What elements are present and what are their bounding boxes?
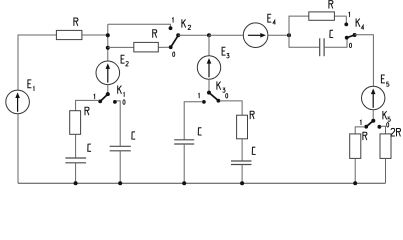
wire E5 bottom to K5 pivot — [372, 110, 374, 120]
label E1 — [28, 80, 32, 88]
label R of top-left resistor — [74, 18, 78, 26]
label E3 — [222, 47, 226, 55]
label C of middle capacitor — [198, 128, 201, 135]
arrow of E1 — [17, 98, 19, 112]
label K4 — [356, 18, 360, 26]
wire second C to bottom rail — [119, 151, 121, 184]
wire from top-left R to node — [82, 34, 108, 36]
wire node C down and right to capacitor C — [289, 35, 320, 47]
label C of second capacitor — [132, 132, 135, 139]
contact 1 dot of K5 — [364, 125, 368, 129]
resistor R (middle vertical branch) — [237, 115, 248, 139]
label 0 of K1 — [123, 100, 125, 105]
label 0 of K5 — [387, 123, 389, 128]
switch K1 blade — [100, 94, 108, 101]
label R of second resistor — [153, 30, 157, 38]
wire top-right R to contact 1 of K4 — [334, 16, 346, 23]
label 1 of K4 — [349, 12, 350, 17]
label K3 — [217, 81, 221, 89]
contact 0 dot of K5 — [378, 125, 382, 129]
node A vertical wire at x=107.8 — [107, 24, 109, 61]
junction dot second C at rail — [118, 181, 122, 185]
contact 0 dot of K1 — [113, 100, 117, 104]
source E3 — [197, 56, 220, 79]
source E5 — [362, 86, 385, 109]
contact 0 dot of K4 — [345, 36, 349, 40]
junction dot bottom-right R at rail — [353, 181, 357, 185]
wire left C to bottom rail — [75, 163, 77, 184]
contact 0 dot of K2 — [169, 45, 173, 49]
contact 1 dot of K1 — [98, 100, 102, 104]
wire K3 contact 0 to RC branch — [220, 101, 243, 115]
wire K5 contact 0 to 2R branch — [380, 126, 385, 134]
arrow of E3 — [208, 63, 210, 77]
switch K2 blade — [171, 35, 179, 47]
wire E1 bottom to bottom rail — [17, 114, 19, 184]
wire K5 contact 1 to R branch — [355, 127, 365, 134]
label E5 — [381, 75, 385, 83]
resistor 2R — [380, 134, 391, 159]
junction dot node A lower — [106, 46, 110, 50]
capacitor C (second branch) — [110, 145, 131, 147]
switch K3 blade — [209, 93, 218, 101]
label 1 of K1 — [94, 94, 95, 99]
label K2 — [182, 19, 186, 27]
wire E4 to junction node C — [268, 34, 289, 36]
label C of top-right capacitor — [330, 30, 333, 37]
label R of middle vertical resistor — [250, 111, 254, 119]
label R of bottom-right resistor — [363, 132, 367, 140]
label 2R — [391, 128, 395, 136]
pivot dot of K3 — [207, 91, 211, 95]
source E1 — [6, 90, 30, 114]
capacitor C (fourth branch) — [231, 160, 252, 162]
wire node B to E4 — [209, 34, 243, 36]
contact 1 dot of K2 — [169, 26, 173, 30]
source E4 — [243, 23, 268, 48]
resistor R (top left horizontal) — [56, 30, 82, 39]
label 1 of K2 — [172, 18, 173, 23]
capacitor C (middle branch) — [174, 139, 194, 141]
wire K4 pivot to E5 — [355, 35, 374, 87]
capacitor C (left branch) — [65, 157, 86, 159]
label 1 of K3 — [198, 93, 199, 98]
source E2 — [96, 61, 120, 85]
wire fourth C to bottom rail — [241, 165, 243, 184]
junction dot node C — [287, 33, 291, 37]
arrow of E5 — [372, 94, 374, 108]
wire K1 contact 1 to left R branch — [76, 100, 99, 110]
wire node A to second resistor R — [108, 46, 134, 48]
label E4 — [268, 14, 272, 22]
junction dot node A upper — [106, 33, 110, 37]
switch K4 blade — [347, 35, 355, 38]
resistor R (second horizontal, K2 branch) — [134, 42, 159, 52]
wire middle C to bottom rail — [183, 144, 185, 183]
label 1 of K5 — [360, 120, 361, 125]
resistor R (left vertical branch) — [70, 111, 81, 135]
wire middle R to capacitor C — [241, 139, 243, 161]
wire K1 contact 0 down to capacitor C — [116, 101, 120, 146]
resistor R (top right horizontal) — [309, 12, 335, 20]
wire node A to switch K2 contact 1 — [108, 24, 171, 26]
wire K3 contact 1 to middle C branch — [184, 102, 203, 140]
label C of left capacitor — [88, 144, 91, 151]
wire second R to contact 0 of K2 — [158, 46, 169, 48]
wire node B down to E3 — [208, 35, 210, 56]
contact 1 dot of K3 — [202, 100, 206, 104]
junction dot left C at rail — [74, 181, 78, 185]
label C of fourth capacitor — [252, 147, 255, 154]
wire E3 bottom to K3 pivot — [208, 79, 210, 91]
capacitor C (top right, horizontal) — [319, 38, 321, 56]
pivot dot of K2 — [176, 33, 180, 37]
label R of left vertical resistor — [85, 107, 89, 115]
contact 1 dot of K4 — [344, 23, 348, 27]
wire top-right C to contact 0 of K4 — [324, 40, 347, 48]
wire E2 bottom to K1 pivot — [107, 85, 109, 93]
pivot dot of K1 — [106, 92, 110, 96]
wire node C up and right to top R — [289, 16, 309, 35]
arrow of E2 — [107, 68, 109, 82]
pivot dot of K5 — [371, 119, 375, 123]
wire bottom-right R to rail — [354, 158, 356, 183]
switch K5 blade — [366, 121, 373, 127]
wire 2R to bottom rail — [385, 158, 387, 183]
label R of top-right resistor — [329, 1, 333, 9]
junction dot middle C at rail — [182, 181, 186, 185]
label 0 of K4 — [349, 43, 351, 48]
contact 0 dot of K3 — [217, 99, 221, 103]
junction dot fourth C at rail — [240, 181, 244, 185]
label E2 — [121, 55, 125, 63]
arrow of E4 — [248, 34, 262, 36]
pivot dot of K4 — [353, 33, 357, 37]
label 0 of K2 — [173, 52, 175, 57]
wire left R to capacitor C — [75, 134, 77, 158]
label 0 of K3 — [226, 94, 228, 99]
label K5 — [383, 111, 387, 119]
label K1 — [118, 85, 122, 93]
wire top-left rail from E1 to resistor R — [18, 35, 56, 90]
junction dot node B — [207, 33, 211, 37]
bottom rail — [18, 182, 386, 184]
wire K2 pivot to node B — [178, 34, 209, 36]
resistor R (bottom right vertical) — [350, 134, 361, 159]
